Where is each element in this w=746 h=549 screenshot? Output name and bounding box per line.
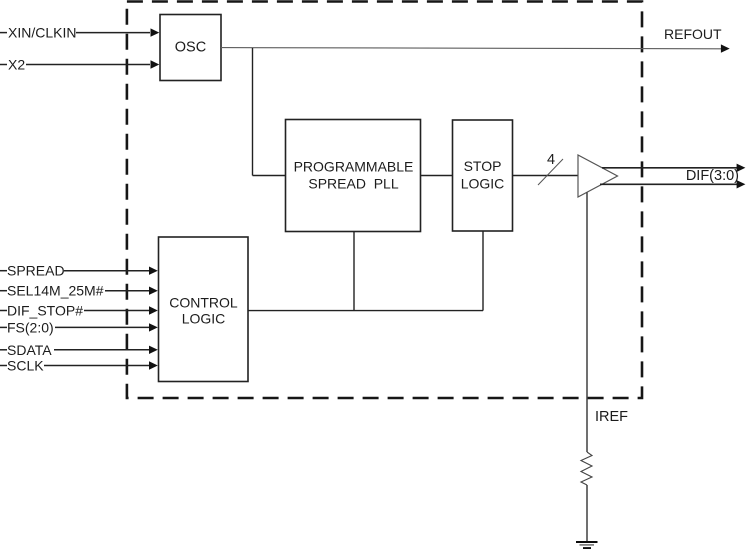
svg-text:XIN/CLKIN: XIN/CLKIN bbox=[8, 25, 76, 41]
svg-text:CONTROL: CONTROL bbox=[169, 295, 238, 311]
svg-text:SPREAD PLL: SPREAD PLL bbox=[308, 176, 398, 192]
svg-text:4: 4 bbox=[547, 152, 555, 168]
svg-text:DIF_STOP#: DIF_STOP# bbox=[7, 303, 83, 319]
svg-text:LOGIC: LOGIC bbox=[461, 176, 505, 192]
svg-text:PROGRAMMABLE: PROGRAMMABLE bbox=[294, 159, 414, 175]
svg-text:SPREAD: SPREAD bbox=[7, 263, 65, 279]
svg-text:X2: X2 bbox=[8, 57, 25, 73]
svg-text:OSC: OSC bbox=[175, 40, 206, 56]
svg-text:SDATA: SDATA bbox=[7, 342, 52, 358]
svg-text:REFOUT: REFOUT bbox=[664, 26, 722, 42]
svg-text:STOP: STOP bbox=[464, 158, 502, 174]
svg-text:SCLK: SCLK bbox=[7, 358, 44, 374]
svg-text:SEL14M_25M#: SEL14M_25M# bbox=[7, 283, 104, 299]
svg-text:FS(2:0): FS(2:0) bbox=[7, 319, 54, 335]
svg-text:DIF(3:0): DIF(3:0) bbox=[686, 168, 739, 184]
svg-text:LOGIC: LOGIC bbox=[182, 311, 226, 327]
svg-text:IREF: IREF bbox=[595, 409, 628, 425]
